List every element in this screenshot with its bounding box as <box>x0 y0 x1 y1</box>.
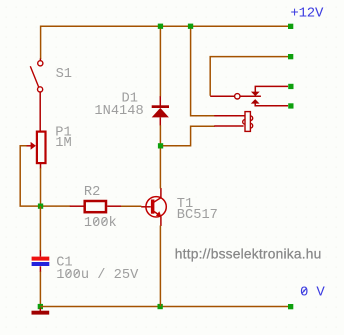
svg-text:S1: S1 <box>56 67 72 82</box>
label C1 <box>56 256 72 271</box>
node junction P1/R2/C1 <box>38 204 43 209</box>
wire junction to R2 <box>41 205 71 207</box>
ground <box>32 308 50 315</box>
node junction top rail at diode column <box>158 24 163 29</box>
label +12V <box>290 6 324 22</box>
node bottom-left junction <box>38 304 43 309</box>
watermark http://bsselektronika.hu <box>175 246 322 262</box>
wire diode anode to collector junction <box>159 125 161 146</box>
svg-text:http://bsselektronika.hu: http://bsselektronika.hu <box>175 246 322 261</box>
wire relay common from top rail area <box>210 57 288 96</box>
switch S1 <box>30 59 43 131</box>
label R2 <box>84 185 100 200</box>
label 100u / 25V <box>56 268 139 283</box>
wire wiper to junction <box>20 146 40 206</box>
node junction diode/collector/coil <box>158 143 163 148</box>
transistor T1 <box>141 188 166 226</box>
wire collector to junction <box>159 148 161 188</box>
svg-text:100k: 100k <box>84 216 117 231</box>
svg-text:100u / 25V: 100u / 25V <box>56 268 139 283</box>
label P1 <box>55 126 71 141</box>
wire +12V rail to diode cathode <box>159 29 161 97</box>
wire junction down to C1 <box>39 206 41 251</box>
node junction top rail at coil column <box>188 24 193 29</box>
wire C1 to bottom junction <box>39 272 41 307</box>
label D1 <box>122 92 138 107</box>
potentiometer P1 <box>26 132 45 169</box>
label BC517 <box>177 208 218 223</box>
node emitter junction on bottom rail <box>158 304 163 309</box>
wire coil supply from top rail <box>191 29 215 116</box>
label 0 V <box>300 284 325 300</box>
relay coil K1 <box>214 112 253 132</box>
wire top rail +12V <box>41 25 288 27</box>
wire emitter to bottom rail <box>159 226 161 307</box>
label 1M <box>55 136 71 151</box>
wire bottom rail 0V <box>40 306 288 308</box>
node +12V terminal <box>288 24 293 29</box>
relay contact common pin <box>210 94 261 99</box>
node relay common terminal <box>288 54 293 59</box>
svg-text:1M: 1M <box>55 136 71 151</box>
label T1 <box>177 197 193 212</box>
node 0V terminal <box>288 304 293 309</box>
capacitor C1 <box>32 251 50 273</box>
wire coil return to junction <box>163 126 215 146</box>
svg-text:+12V: +12V <box>290 6 324 22</box>
relay contact NO arrow <box>251 99 288 106</box>
resistor R2 <box>70 201 121 212</box>
svg-text:BC517: BC517 <box>177 208 218 223</box>
label S1 <box>56 67 72 82</box>
label 1N4148 <box>94 104 143 119</box>
label 100k <box>84 216 117 231</box>
diode D1 <box>152 96 169 126</box>
node NO terminal <box>288 103 293 108</box>
wire pot bottom to junction <box>40 168 42 206</box>
wire left drop to switch <box>40 26 42 60</box>
node NC terminal <box>288 84 293 89</box>
svg-text:R2: R2 <box>84 185 100 200</box>
svg-text:0 V: 0 V <box>300 284 325 300</box>
relay contact NC arrow <box>251 86 288 96</box>
wire R2 to T1 base <box>121 205 141 207</box>
svg-text:1N4148: 1N4148 <box>94 104 143 119</box>
